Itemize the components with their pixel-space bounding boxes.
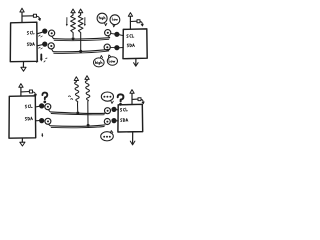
pin label SCL (U3)	[25, 104, 32, 108]
driver blob U1-SCL	[43, 29, 47, 33]
bubble "Low"	[107, 55, 117, 65]
junction dot R3/SCL	[76, 112, 79, 115]
chip U2 (right, top circuit)	[123, 29, 147, 59]
pin label SCL (U4)	[120, 108, 127, 111]
resistor R2 (SDA pull-up)	[78, 15, 83, 50]
arrow into chip U4 (bottom-right branch)	[141, 99, 144, 104]
arrow into chip U1 (top-left branch)	[37, 16, 41, 20]
driver blob U3-SCL	[40, 104, 44, 108]
wire VDD branch (bottom-right)	[132, 98, 138, 100]
wire VDD branch to connector (top-left)	[22, 15, 33, 17]
arrow into chip U3 (bottom-left branch)	[33, 92, 37, 96]
wire SCL pin stub (U3)	[36, 105, 40, 108]
power symbol for resistor R1	[71, 9, 75, 15]
power symbol for resistor R4	[85, 76, 89, 81]
current arrow beside R2	[84, 18, 86, 27]
speech bubble "..." (lower, bottom circuit)	[101, 131, 114, 141]
power symbol VDD (above right chip U4)	[130, 90, 134, 105]
pin label SDA (U3)	[25, 117, 33, 121]
ground arrow below U2	[134, 59, 139, 66]
wire SCL pin stub (U1)	[37, 32, 42, 37]
driver blob U2-SCL	[111, 32, 124, 36]
power symbol for resistor R2	[79, 9, 83, 15]
question mark (left, bottom circuit)	[42, 93, 47, 104]
question mark (right, bottom circuit)	[118, 94, 124, 105]
pin label SCL (U2)	[127, 34, 134, 37]
ground arrow below U3	[20, 138, 25, 146]
junction dot R1/SCL	[72, 37, 75, 40]
wire VDD branch (bottom-left)	[21, 91, 29, 93]
pad circle U2-SDA	[104, 44, 110, 50]
wire VDD branch (top-right)	[130, 20, 137, 22]
falling-edge arrow below SDA bus	[37, 54, 47, 62]
ground arrow below U1	[21, 62, 26, 71]
driver blob U2-SDA	[110, 46, 123, 50]
ground arrow below U4	[130, 132, 135, 145]
resistor R3 (SCL pull-up, bottom)	[75, 82, 80, 112]
connector square (top-right branch)	[137, 20, 140, 23]
chip U1 (left, top circuit)	[10, 22, 37, 62]
power symbol VDD (above left chip U3)	[19, 84, 23, 96]
bubble "high"	[94, 56, 105, 67]
driver blob U3-SDA	[40, 118, 44, 122]
speech bubble (left chip says)	[97, 13, 107, 26]
resistor R1 (SCL pull-up)	[71, 15, 76, 37]
connector square (bottom-right branch)	[138, 98, 141, 101]
connector square (bottom-left branch)	[29, 90, 32, 93]
resistor R4 (SDA pull-up, bottom)	[85, 81, 90, 125]
wire SDA pin stub (U1)	[37, 45, 42, 49]
driver blob U1-SDA	[43, 42, 47, 46]
driver blob U4-SDA	[112, 118, 118, 122]
pad circle U2-SCL	[105, 30, 111, 38]
pad circle U1-SCL	[49, 30, 55, 38]
wire SDA bus (top circuit)	[53, 49, 109, 53]
current arrow beside R1	[66, 18, 68, 27]
wire SDA pin stub (U3)	[36, 120, 40, 122]
wire SCL bus (bottom circuit)	[51, 112, 105, 115]
pin label SDA (U2)	[127, 44, 134, 48]
pad circle U4-SDA	[104, 119, 110, 125]
connector square (top-left branch)	[33, 14, 36, 17]
pin label SCL (U1)	[27, 31, 34, 35]
driver blob U4-SCL	[112, 107, 118, 111]
speech bubble (right chip says)	[110, 15, 120, 27]
wire SCL bus (top circuit)	[54, 38, 110, 41]
power symbol for resistor R3	[74, 77, 78, 82]
junction dot R4/SDA	[87, 124, 90, 127]
small scribble left of R3	[68, 96, 72, 100]
pin label SDA (U1)	[27, 42, 35, 46]
pin label SDA (U4)	[120, 118, 127, 122]
junction dot R2/SDA	[79, 50, 82, 53]
power symbol VDD (above right chip U2)	[128, 13, 132, 29]
pad circle U1-SDA	[48, 43, 54, 52]
speech bubble "..." (upper, bottom circuit)	[101, 92, 113, 103]
wire SDA bus (bottom circuit)	[51, 125, 105, 128]
power symbol VDD (above left chip U1)	[20, 8, 24, 22]
falling-edge droplet below SDA bus (bottom circuit)	[41, 134, 43, 137]
pad circle U3-SCL	[45, 104, 51, 112]
pad circle U3-SDA	[45, 118, 51, 125]
arrow into chip U2 (top-right branch)	[140, 21, 143, 26]
pad circle U4-SCL	[105, 108, 111, 114]
chip U4 (right, bottom circuit)	[118, 104, 143, 132]
chip U3 (left, bottom circuit)	[9, 96, 36, 138]
